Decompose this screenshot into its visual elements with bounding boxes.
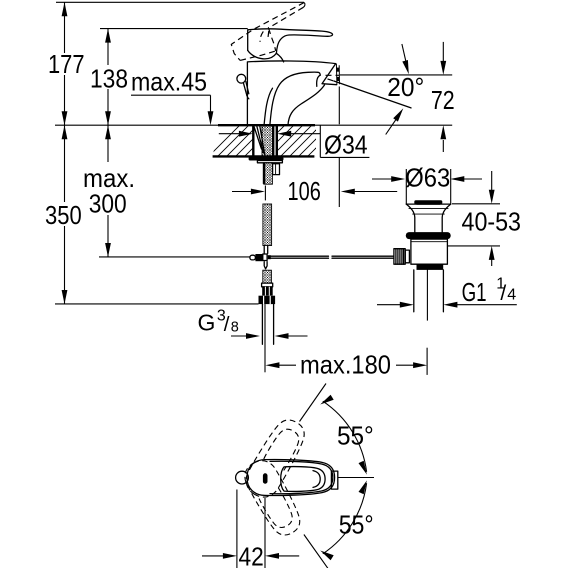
- bottom coupling: [417, 264, 444, 270]
- svg-text:40-53: 40-53: [462, 206, 522, 236]
- tailpipe: [414, 270, 444, 312]
- 72 down arrow: [442, 42, 444, 62]
- tip bracket: [331, 471, 337, 489]
- deck bottom line: [213, 155, 315, 157]
- flange: [406, 203, 450, 205]
- G3/8 dimension arrows: [231, 333, 308, 339]
- solid handle lever: [248, 29, 333, 53]
- svg-text:8: 8: [231, 320, 239, 336]
- plug cap: [414, 200, 442, 204]
- G1 1/4 arrows: [377, 304, 401, 306]
- 72 up arrow below deck: [442, 140, 444, 152]
- 177 top reference line: [56, 1, 304, 3]
- 177 vertical + arrows: [64, 2, 66, 125]
- lever blade top view: [281, 467, 325, 492]
- lower threaded section: [263, 270, 272, 283]
- 106 dimension: [232, 87, 397, 208]
- radial lines 55: [300, 384, 327, 422]
- pop-up hole circle: [236, 471, 249, 484]
- svg-text:350: 350: [45, 200, 82, 230]
- svg-text:/: /: [224, 313, 230, 336]
- spout underside curve: [288, 85, 325, 125]
- max300 bottom reference: [99, 256, 250, 258]
- horizontal actuating rod: [271, 256, 394, 258]
- cartridge mark: [263, 473, 268, 483]
- Ø34 arrows: [219, 131, 320, 137]
- svg-text:G1: G1: [462, 277, 487, 307]
- pop-up knob: [237, 74, 246, 83]
- svg-text:177: 177: [48, 49, 85, 79]
- bottom view: [202, 384, 374, 568]
- svg-text:72: 72: [431, 85, 455, 115]
- svg-text:Ø63: Ø63: [405, 163, 450, 193]
- svg-text:max.45: max.45: [131, 67, 207, 97]
- dashed swung handle top: [240, 414, 311, 503]
- o-ring: [406, 232, 451, 239]
- max180 dimension: [265, 348, 427, 375]
- left dimensions: [55, 2, 304, 304]
- svg-text:G: G: [198, 310, 216, 336]
- spout upper curve: [270, 72, 320, 125]
- right waste dimensions: [372, 169, 517, 308]
- 40-53 reference lines: [452, 203, 500, 205]
- slanted down arrow: [402, 44, 406, 62]
- inner offset line: [270, 461, 333, 493]
- supply pipe: [262, 304, 273, 344]
- solid handle top view (egg capsule): [247, 460, 335, 496]
- arcs with arrows: [323, 401, 367, 472]
- svg-text:max.180: max.180: [300, 350, 391, 380]
- dashed swung handle bottom: [239, 455, 306, 541]
- deck cross-section hatching: [55, 120, 452, 160]
- deck top line: [55, 124, 452, 126]
- svg-text:55°: 55°: [337, 421, 374, 451]
- faucet side view: [231, 3, 339, 126]
- Ø63 extension lines: [406, 169, 450, 204]
- 350 vertical + arrows: [64, 125, 66, 304]
- 20 degree + 72 dimension: [326, 42, 453, 152]
- 20° arc arrow: [386, 119, 397, 134]
- svg-text:20°: 20°: [387, 72, 424, 102]
- svg-text:/: /: [500, 282, 506, 305]
- threaded shank below: [264, 163, 273, 184]
- handle base bottom arc: [248, 50, 277, 58]
- aerator block: [322, 64, 337, 85]
- G3/8 nut: [259, 296, 276, 304]
- 40-53 arrows: [491, 171, 493, 190]
- spout end cap: [317, 75, 321, 86]
- 42 dimension: [237, 490, 265, 568]
- svg-text:106: 106: [288, 176, 321, 206]
- max300 vertical + arrows: [107, 125, 109, 257]
- pop-up waste assembly: [271, 200, 451, 320]
- outlet plumb line: [338, 87, 340, 208]
- dashed raised handle: [231, 3, 305, 61]
- max45 leader: [131, 95, 211, 112]
- washer under deck: [249, 157, 284, 161]
- Ø63 arrows: [372, 178, 392, 180]
- rod guide stub: [273, 164, 280, 175]
- pop-up rod lower: [264, 246, 268, 254]
- body outline: [247, 61, 335, 125]
- 350 bottom reference: [55, 303, 259, 305]
- svg-text:300: 300: [89, 189, 127, 219]
- svg-text:Ø34: Ø34: [324, 129, 368, 159]
- svg-text:42: 42: [239, 541, 264, 568]
- deck hole step + label box for Ø34: [320, 125, 369, 157]
- pivot clamp: [250, 255, 256, 260]
- center stub line right: [338, 477, 374, 479]
- 138 top reference line: [100, 28, 248, 30]
- side port + knurled knob: [405, 250, 409, 263]
- under-deck shank: [249, 125, 284, 372]
- 138 vertical + arrows: [107, 29, 109, 126]
- svg-text:4: 4: [507, 287, 516, 304]
- svg-text:138: 138: [90, 63, 128, 93]
- svg-text:55°: 55°: [339, 510, 374, 540]
- neck curve to body: [276, 53, 283, 62]
- spout leg left line: [264, 88, 272, 125]
- valve body: [411, 239, 448, 264]
